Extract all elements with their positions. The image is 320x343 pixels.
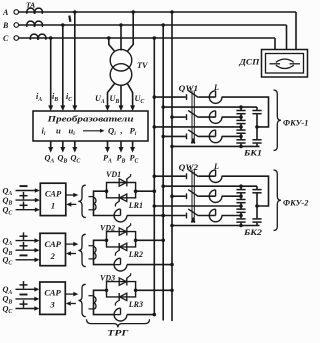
reactor LR2 [114,264,120,266]
svg-text:Qi: Qi [108,126,116,138]
controller box SAR3 [40,282,66,314]
sign minus [20,294,28,296]
wire SAR1 control out [66,194,74,196]
node fku2 left string bottom [239,224,243,228]
disconnector QW1 pole 3 [186,134,188,140]
wire VD1 output [136,190,155,192]
disconnector QW2 pole 2 [186,193,188,199]
sign minus [20,185,28,187]
DSP electrode symbol [270,63,281,65]
node VD3 left [105,289,109,293]
current transformer TA phase C [30,34,38,40]
wire VD3 output [136,289,172,291]
controller box SAR1 [40,183,66,215]
svg-text:LR2: LR2 [128,250,143,259]
disconnector QW2 pole 3 [186,213,188,219]
svg-text:UB: UB [110,94,120,105]
wire fku1 row1 input [154,96,186,98]
node TV feed A [131,10,135,14]
svg-text:LR1: LR1 [128,201,143,210]
wire fku1 row5 input [163,135,186,137]
svg-text:ДСП: ДСП [238,58,260,67]
wire DSP feeder C [274,38,276,50]
svg-text:ui: ui [69,126,76,138]
svg-text:QC: QC [3,256,13,267]
wire QC input to SAR3 [16,308,36,310]
disconnector QW1 pole 2 [186,114,188,120]
thyristor VD1b [120,194,127,201]
brace gating group 2 [78,234,85,266]
sign +joined [20,204,28,206]
node bus b on phase B [161,23,165,27]
wire fku2 row1 over top [222,176,269,206]
node fku1 bank tap row5 [239,135,243,139]
svg-text:UA: UA [95,94,105,105]
wire iA [50,38,52,108]
wire QC input to SAR2 [16,259,37,261]
wire QA input to SAR2 [16,240,37,242]
node fku1 row4 bus tap [153,125,157,129]
wire fku1 row5 to bank [222,135,241,137]
voltage transformer TV winding 1 [110,49,132,71]
wire QB input to SAR3 [16,298,36,300]
sign +joined [20,235,28,237]
reactor L fku1 phase 3 [215,130,217,136]
svg-text:ФКУ-2: ФКУ-2 [283,198,308,207]
svg-text:TV: TV [137,61,149,70]
current transformer TA phase B [27,21,35,27]
gate winding VD1 [94,197,96,210]
wire VD1 left leg [94,191,115,215]
node LR1 to bus [161,214,165,218]
wire QA input to SAR1 [16,190,37,192]
wire fku2 row6 bottom [172,225,260,227]
svg-text:iA: iA [36,92,42,103]
brace TRG [87,319,150,327]
wire UB [120,85,122,107]
wire fku1 row3 to bank [222,116,241,118]
wire PB output [120,141,122,149]
svg-text:,: , [120,126,123,136]
wire SAR3 control out [65,293,74,295]
wire fku1 row1 over top [222,97,269,127]
capacitor bank string 1 of BK2 [240,186,242,225]
node fku2 row2 bus tap [161,184,165,188]
reactor LR3 [114,314,120,316]
reactor L fku2 phase 3 [215,209,217,215]
node VD3 to bus [170,289,174,293]
wire VD2 left leg [94,240,115,264]
wire LR3 output [127,314,154,316]
thyristor VD2a [119,228,126,235]
wire TV feed A [127,12,133,52]
wire iC [74,12,76,108]
node fku1 bank tap row3 [239,115,243,119]
node fku1 row2 bus tap [161,105,165,109]
disconnector QW1 pole 1 [186,94,188,100]
wire bus c [153,38,155,315]
wire PA output [107,141,109,149]
wire fku1 row2 [163,106,257,108]
ink mark [69,16,70,22]
node fku2 left string top [239,184,243,188]
terminal B [14,23,19,28]
node fku2 row5 bus tap [161,214,165,218]
wire VD3 left leg [94,290,115,314]
wire UC [127,84,132,108]
sign +joined [20,303,28,305]
sign +joined [20,245,28,247]
node VD1 right [134,189,138,193]
svg-text:БК2: БК2 [243,228,262,237]
wire VD2 output [136,239,164,241]
wire SAR2 control out [66,243,75,245]
node fku2 left string tap [239,204,243,208]
wire QB output [62,141,64,149]
wire fku2 row1 to reactor [198,175,215,177]
reactor L fku1 phase 1 [215,91,217,97]
svg-text:LR3: LR3 [128,300,143,309]
node bus a on phase A [170,10,174,14]
node VD2 left [105,239,109,243]
brace gating group 3 [78,284,85,316]
wire DSP feeder A [295,12,297,50]
svg-text:2: 2 [50,251,56,261]
node fku1 right string mid [255,125,259,129]
svg-text:QB: QB [58,154,68,165]
node LR2 to bus [170,263,174,267]
converter box U1 [33,111,148,141]
node fku2 row1 bus tap [153,174,157,178]
wire fku2 row2 [163,185,257,187]
sign +joined [20,195,28,197]
svg-text:ii: ii [42,126,46,138]
wire QC input to SAR1 [16,209,37,211]
node fku1 row3 bus tap [170,115,174,119]
node fku1 row5 bus tap [161,135,165,139]
wire QB input to SAR1 [16,199,37,201]
wire iB [62,25,64,108]
capacitor bank string 2 of BK2 [256,186,258,225]
svg-text:САР: САР [45,239,62,249]
node bus c on phase C [153,36,157,40]
svg-text:1: 1 [51,201,55,211]
wire SAR1 feedback in [71,203,76,205]
node iB tap [61,23,65,27]
node VD2 right [134,239,138,243]
wire fku1 row1 to reactor [198,96,215,98]
wire fku1 row5 to reactor [198,135,215,137]
wire LR2 output [127,264,172,266]
svg-text:iC: iC [66,92,72,103]
wire fku2 row3 to reactor [198,195,215,197]
svg-text:Преобразователи: Преобразователи [46,114,133,124]
wire TV feed C [109,38,115,52]
svg-text:PB: PB [117,154,126,165]
node fku2 bank tap row5 [239,214,243,218]
wire fku1 row4 [154,126,241,128]
thyristor pair VD1 frame [107,183,136,192]
capacitor bank string 2 of BK1 [256,107,258,146]
reactor L fku1 phase 2 [215,111,217,117]
gate winding VD3 [94,297,96,310]
svg-text:PA: PA [103,154,112,165]
thyristor pair VD2 frame [107,232,136,241]
thyristor VD3b [120,293,127,300]
wire TV feed B [120,25,122,51]
thyristor VD2b [120,243,127,250]
wire bus a [171,12,173,321]
svg-text:ФКУ-1: ФКУ-1 [283,118,308,127]
node fku2 row4 bus tap [153,204,157,208]
svg-text:QA: QA [45,154,55,165]
brace gating group 1 [78,185,85,217]
node VD3 right [134,289,138,293]
wire phase C [19,37,275,39]
wire fku2 row5 input [163,215,186,217]
svg-text:QC: QC [3,304,13,315]
wire UA [108,84,115,108]
node fku1 row1 bus tap [153,95,157,99]
wire SAR2 feedback in [71,253,76,255]
reactor LR1 [114,215,120,217]
svg-text:PC: PC [130,154,139,165]
wire PC output [132,141,134,149]
node VD1 to bus [153,189,157,193]
svg-text:A: A [2,8,9,17]
svg-text:САР: САР [45,189,62,199]
reactor L fku2 phase 1 [215,170,217,176]
node VD2 to bus [161,239,165,243]
svg-text:ТРГ: ТРГ [107,329,129,338]
node fku2 row3 bus tap [170,194,174,198]
switch linkage QW2 [191,170,193,223]
terminal A [14,10,19,15]
node TV feed B [119,23,123,27]
node iA tap [49,36,53,40]
thyristor pair VD3 frame [107,282,136,291]
svg-text:VD1: VD1 [106,170,121,179]
node LR3 to bus [153,313,157,317]
wire QA input to SAR3 [16,288,36,290]
wire fku1 row6 bottom [172,145,260,147]
wire fku1 row3 to reactor [198,116,215,118]
node fku1 left string top [239,105,243,109]
arc furnace DSP box [262,50,308,78]
wire fku2 row5 to reactor [198,215,215,217]
wire fku2 row5 to bank [222,215,241,217]
gate winding VD2 [94,247,96,260]
svg-text:QC: QC [71,154,81,165]
node iC tap [73,10,77,14]
node fku1 left string bottom [239,145,243,149]
wire QC output [74,141,76,149]
svg-text:iB: iB [52,92,58,103]
wire QA output [50,141,52,149]
wire fku2 row4 [154,205,241,207]
sign +joined [20,284,28,286]
thyristor VD1a [119,179,126,186]
wire fku1 row3 input [172,116,186,118]
wire DSP feeder B [286,25,288,50]
wire phase B [19,24,287,26]
sign minus [20,254,28,256]
svg-text:Pi: Pi [130,126,137,138]
controller box SAR2 [40,233,66,265]
svg-text:B: B [2,21,9,30]
voltage transformer TV winding 2 [110,64,132,86]
reactor L fku2 phase 2 [215,190,217,196]
node TV feed C [107,36,111,40]
wire QB input to SAR2 [16,249,37,251]
svg-text:QC: QC [3,206,13,217]
node fku2 bank tap row3 [239,194,243,198]
wire fku2 row3 input [172,195,186,197]
wire phase A [19,11,296,13]
brace FKU-1 [274,90,282,151]
brace FKU-2 [274,170,282,231]
capacitor bank string 1 of BK1 [240,107,242,146]
svg-text:САР: САР [44,288,61,298]
node fku1 left string tap [239,125,243,129]
node fku2 row6 bus tap [170,224,174,228]
svg-text:3: 3 [49,300,55,310]
svg-text:C: C [3,34,9,43]
svg-text:UC: UC [135,94,145,105]
terminal C [14,36,19,41]
wire fku2 row3 to bank [222,195,241,197]
thyristor VD3a [119,278,126,285]
node VD1 left [105,189,109,193]
svg-text:БК1: БК1 [243,149,262,158]
wire LR1 output [127,215,163,217]
wire fku2 row1 input [154,175,186,177]
wire bus b [162,25,164,321]
node fku2 right string mid [255,204,259,208]
node fku1 row6 bus tap [170,145,174,149]
svg-text:и: и [56,126,61,136]
switch linkage QW1 [191,91,193,144]
disconnector QW2 pole 1 [186,173,188,179]
wire SAR3 feedback in [71,303,76,305]
current transformer TA phase A [27,8,35,14]
